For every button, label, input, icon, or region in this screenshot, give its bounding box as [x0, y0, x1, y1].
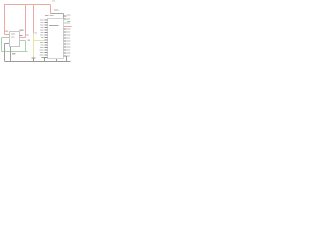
- U1 right pin stub: [20, 35, 23, 37]
- wire yellow branch to U2 pin: [34, 40, 45, 42]
- U2 value label above: [50, 15, 54, 16]
- wire green right net: [64, 22, 71, 24]
- U2 left pins: [45, 20, 48, 58]
- wire U2 right pin to GND: [66, 56, 68, 62]
- wire U1 pin GND stub: [5, 43, 10, 45]
- label below U1: [12, 53, 16, 54]
- capacitor C1 lead: [33, 58, 35, 62]
- wire GND bottom bus: [5, 61, 71, 63]
- wire U1 right pin VOUT: [20, 37, 26, 39]
- wire +V left drop: [4, 4, 6, 35]
- wire +V right drop: [50, 5, 52, 14]
- wire U2 lowest left pin to GND: [42, 57, 48, 59]
- regulator U1 body: [10, 32, 20, 47]
- wire green bottom run: [2, 51, 28, 53]
- U1 internal text: [11, 34, 15, 35]
- U2 left pin labels: [40, 20, 44, 56]
- wire +V into U1 pin VIN: [5, 34, 10, 36]
- wire green U1 right pin: [20, 40, 26, 42]
- wire drop to GND bus left of U2: [44, 58, 46, 62]
- U2 right pin labels: [67, 15, 71, 57]
- wire GND green U1 left: [2, 37, 10, 39]
- mcu U2 body: [48, 19, 64, 59]
- U1 reference label: [20, 30, 24, 31]
- label near U1 right stub: [26, 34, 29, 35]
- wire green drop from U1: [25, 41, 27, 52]
- wire green left drop: [1, 38, 3, 52]
- wire +V top bus: [5, 4, 51, 6]
- label near green corner: [28, 40, 31, 41]
- wire VCC vertical to U2 top pin: [63, 14, 65, 19]
- U2 part name text: [49, 25, 59, 26]
- wire U2 bottom pin to GND: [56, 59, 58, 62]
- U2 right pins: [64, 16, 67, 56]
- wire VCC to U2: [51, 13, 64, 15]
- wire red right net: [64, 26, 72, 28]
- wire +V drop B: [33, 5, 35, 34]
- U2 reference label above: [45, 15, 49, 16]
- label near yellow junction: [35, 32, 38, 33]
- wire yellow net vertical: [33, 34, 35, 58]
- label +5V: [5, 31, 8, 32]
- U1 internal text2: [11, 37, 15, 38]
- label VCC net: [54, 10, 59, 11]
- wire U1 GND drop: [4, 44, 6, 62]
- wire U1 bottom drop: [10, 47, 12, 62]
- wire +V drop to U1 right pin: [25, 5, 27, 38]
- label +3V3 top right: [52, 0, 55, 1]
- capacitor C1 plate: [32, 57, 36, 59]
